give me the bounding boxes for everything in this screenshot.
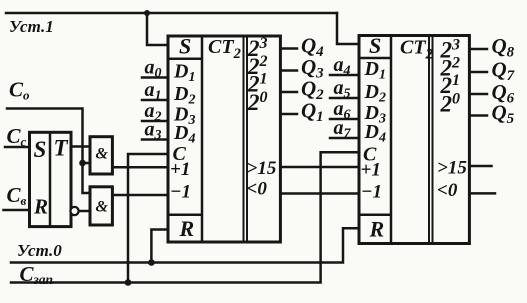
trigger T1 divider <box>49 132 52 226</box>
svg-text:S: S <box>179 34 191 59</box>
svg-text:<0: <0 <box>437 180 458 201</box>
trigger T1 inversion bubble <box>70 207 78 215</box>
and-gate D1 body <box>90 137 112 174</box>
wire input a5 to U2 D2 <box>330 97 359 100</box>
junction dot C0 branch <box>79 160 86 167</box>
junction dot top bus <box>144 10 150 16</box>
wire Czap riser to U1 C input <box>128 154 168 283</box>
wire output Q1 <box>280 113 297 116</box>
wire U1 R input to Уст.0 line <box>151 230 168 263</box>
wire borrow <0 of U1 to -1 of U2 <box>280 192 359 195</box>
svg-text:+1: +1 <box>170 159 190 180</box>
svg-text:R: R <box>33 195 48 219</box>
wire Cзап bus to U2 C <box>11 152 359 282</box>
wire input a6 to U2 D3 <box>330 118 359 121</box>
svg-text:R: R <box>179 216 195 241</box>
svg-text:−1: −1 <box>170 182 191 203</box>
wire gate D1 output to U1 +1 <box>112 166 168 169</box>
wire Уст.0 bus to U2 R <box>11 228 359 262</box>
wire Уст.1 to U2 S input <box>337 13 359 44</box>
svg-text:Уст.0: Уст.0 <box>17 241 62 260</box>
wire input a1 to U1 D2 <box>142 99 168 102</box>
wire input a7 to U2 D4 <box>330 137 359 140</box>
junction dot Cзап / C1 riser <box>125 279 132 286</box>
wire input a2 to U1 D3 <box>142 120 168 123</box>
counter U2 divider 1 <box>390 36 393 244</box>
wire output Q2 <box>280 91 297 94</box>
counter U1 divider 1 <box>201 36 204 242</box>
wire input a3 to U1 D4 <box>142 138 168 141</box>
svg-text:T: T <box>54 136 69 161</box>
wire output Q8 <box>469 48 487 51</box>
svg-text:>15: >15 <box>247 158 277 179</box>
and-gate D2 body <box>90 187 112 225</box>
junction dot Уст.0 / R1 riser <box>148 259 155 266</box>
counter U1 divider 2 double line <box>243 36 245 242</box>
wire trigger Q output to gate D1 <box>71 145 90 148</box>
counter U2 divider 2 double line <box>428 36 430 244</box>
counter U1 R cell divider <box>168 214 202 217</box>
wire output >15 of U2 <box>469 165 491 168</box>
wire Уст.1 top bus <box>6 12 337 15</box>
wire output Q4 <box>280 47 297 50</box>
wire Cc input to trigger S <box>5 146 30 149</box>
wire input a0 to U1 D1 <box>142 76 168 79</box>
counter U1 S cell divider <box>168 57 202 60</box>
counter U2 S cell divider <box>359 57 391 60</box>
wire input a4 to U2 D1 <box>330 74 359 77</box>
wire C0 branch to gate D1 lower input <box>83 162 91 165</box>
wire output Q6 <box>469 93 487 96</box>
svg-text:+1: +1 <box>361 160 381 181</box>
svg-text:R: R <box>369 217 385 242</box>
svg-text:<0: <0 <box>247 179 268 200</box>
svg-text:Уст.1: Уст.1 <box>9 17 54 36</box>
wire trigger inverted output to gate D2 <box>77 210 90 213</box>
wire output <0 of U2 <box>469 192 495 195</box>
counter U2 body <box>359 36 469 244</box>
wire Уст.1 branch to U1 S input <box>147 13 168 45</box>
svg-text:&: & <box>96 146 109 163</box>
wire Cv input to trigger R <box>4 209 30 212</box>
wire output Q5 <box>469 114 487 117</box>
svg-text:>15: >15 <box>437 158 467 179</box>
svg-text:&: & <box>96 199 109 216</box>
counter U1 body <box>168 36 280 242</box>
wire carry >15 of U1 to +1 of U2 <box>280 166 359 169</box>
wire gate D2 output to U1 -1 <box>112 194 168 197</box>
wire output Q7 <box>469 71 487 74</box>
svg-text:S: S <box>369 33 381 58</box>
wire output Q3 <box>280 69 297 72</box>
wire C0 input to gates <box>7 109 90 194</box>
svg-text:S: S <box>34 137 47 162</box>
counter U2 R cell divider <box>359 214 391 217</box>
svg-text:−1: −1 <box>361 182 382 203</box>
trigger T1 body <box>30 132 72 226</box>
